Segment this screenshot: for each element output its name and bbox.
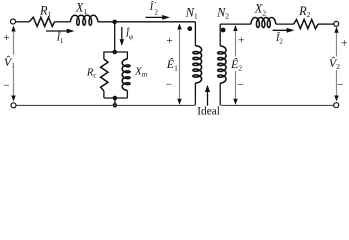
svg-text:−: − <box>337 80 344 92</box>
Xm bottom lead <box>126 91 128 99</box>
inductor Xm vertical coil <box>122 59 130 91</box>
terminal top-right <box>334 21 339 26</box>
terminal bottom-left <box>11 103 16 108</box>
Rc bottom lead <box>103 91 105 98</box>
inductor X1 <box>71 15 98 25</box>
resistor R2 <box>294 20 318 29</box>
svg-text:−: − <box>3 80 10 92</box>
voltage arrow V1 <box>13 30 15 56</box>
primary winding bottom lead <box>194 83 196 105</box>
svg-text:+: + <box>3 32 10 44</box>
polarity dot primary <box>187 26 192 31</box>
svg-text:+: + <box>238 34 245 46</box>
shunt bottom rail <box>104 97 128 99</box>
polarity dot secondary <box>221 28 226 33</box>
primary winding top lead <box>194 22 196 46</box>
junction dot top rail <box>112 50 117 55</box>
node junction dot <box>112 20 117 25</box>
shunt top rail <box>104 52 128 59</box>
resistor Rc vertical <box>101 59 108 91</box>
junction dot bottom wire <box>113 103 118 108</box>
svg-text:2: 2 <box>154 7 158 16</box>
terminal bottom-right <box>334 103 339 108</box>
svg-text:Î: Î <box>149 1 154 13</box>
wire top-left: terminal to R1 <box>16 21 29 23</box>
inductor X2 <box>251 18 276 28</box>
svg-text:+: + <box>341 37 348 49</box>
svg-text:Ideal: Ideal <box>197 105 220 117</box>
wire node down to shunt <box>114 22 116 52</box>
winding N1 coil <box>193 46 202 83</box>
stub to bottom wire <box>114 98 116 105</box>
bottom wire secondary <box>220 104 333 106</box>
secondary winding bottom lead <box>219 83 221 106</box>
voltage arrow E2 <box>235 28 237 57</box>
voltage arrow V2 <box>336 29 338 57</box>
svg-text:+: + <box>166 35 173 47</box>
junction dot bottom rail <box>113 96 118 101</box>
current arrow I1 <box>46 30 70 32</box>
current arrow I2 <box>273 29 290 31</box>
svg-text:−: − <box>166 79 173 91</box>
wire R2 to terminal <box>318 23 334 25</box>
current arrow I2prime <box>146 16 166 18</box>
resistor R1 <box>29 17 54 26</box>
terminal top-left <box>11 19 16 24</box>
wire X2 to R2 <box>276 23 294 25</box>
winding N2 coil <box>218 46 226 83</box>
current arrow I_phi <box>121 27 123 42</box>
svg-text:−: − <box>237 79 244 91</box>
wire X1 to winding corner <box>98 21 196 23</box>
wire R1 to X1 <box>55 21 71 23</box>
Ideal arrow <box>207 89 209 106</box>
secondary winding top lead <box>219 24 221 46</box>
bottom wire primary <box>16 103 195 105</box>
voltage arrow E1 <box>179 26 181 103</box>
wire secondary top <box>220 23 251 25</box>
